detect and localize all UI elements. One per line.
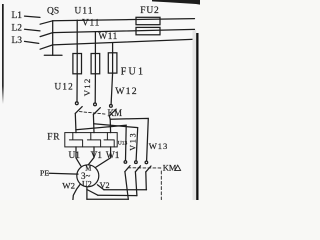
wire KM-delta pole3 down [145, 172, 148, 190]
wire tap V13 [94, 124, 138, 161]
contactor KM-delta dashed vertical [160, 171, 162, 200]
svg-text:V1: V1 [91, 151, 103, 161]
contactor KM blade pole3 [109, 109, 116, 116]
wire KM-delta pole1 down [125, 172, 128, 200]
wire phase line 2 after QS [53, 29, 195, 32]
FR heater element 1 [69, 133, 82, 147]
switch QS blade pole3 [40, 45, 53, 49]
wire FR1 to motor U1 [76, 147, 81, 167]
svg-text:U12: U12 [55, 82, 74, 92]
contactor KM contact circle pole1 [75, 102, 78, 105]
FR heater element 3 [104, 133, 114, 147]
fuse FU1 pole2 [91, 54, 100, 74]
wire bottom bus H1 [104, 189, 147, 191]
contactor KM-delta circle pole2 [135, 161, 138, 164]
switch QS linkage bar [52, 21, 54, 55]
svg-text:FU2: FU2 [140, 6, 159, 16]
svg-text:W11: W11 [98, 32, 118, 42]
svg-text:V11: V11 [82, 18, 100, 28]
svg-text:U11: U11 [75, 6, 94, 16]
svg-text:W1: W1 [106, 151, 120, 161]
scan artifact: top edge smear [152, 0, 200, 5]
svg-text:PE: PE [40, 168, 49, 177]
switch QS handle T-bar [44, 54, 62, 56]
wire phase line 3 after QS [53, 39, 195, 45]
wire through fuse1 down to KM contact [76, 54, 78, 102]
thermal relay FR box [65, 133, 117, 147]
svg-text:W2: W2 [62, 180, 75, 190]
wire through fuse2 down to KM contact [94, 54, 96, 103]
FR heater element 2 [87, 133, 100, 147]
svg-text:L2: L2 [12, 23, 23, 33]
svg-text:V13: V13 [128, 132, 137, 151]
scan artifact: right page shadow [193, 30, 197, 200]
svg-text:L1: L1 [12, 11, 23, 21]
fuse FU1 pole3 [108, 53, 117, 73]
wire V11 drop [94, 32, 96, 54]
svg-text:W12: W12 [115, 86, 138, 97]
svg-text:QS: QS [47, 6, 59, 16]
wire KM pole3 to FR [109, 116, 110, 133]
svg-text:U1: U1 [69, 151, 81, 161]
motor M circle [77, 165, 99, 187]
contactor KM-delta blade pole2 [135, 166, 140, 172]
node L2 lead-in wire [25, 29, 41, 31]
svg-text:FR: FR [47, 133, 60, 143]
wire U11 drop [76, 20, 78, 53]
svg-text:L3: L3 [12, 36, 23, 46]
svg-text:KM: KM [108, 108, 123, 118]
contactor KM contact circle pole2 [94, 103, 97, 106]
wire KM pole2 to FR [92, 115, 95, 133]
contactor KM-delta blade pole3 [146, 166, 151, 172]
paper background [0, 0, 200, 200]
wire bottom bus H3 [87, 198, 128, 200]
wire bottom bus H2 [98, 194, 137, 196]
contactor KM-delta circle pole3 [145, 161, 148, 164]
wire phase line 1 after QS [53, 19, 195, 21]
contactor KM dashed linkage [80, 112, 107, 115]
fuse FU1 pole1 [73, 54, 82, 74]
wire motor V2 lead [97, 185, 104, 190]
svg-text:V12: V12 [82, 78, 92, 97]
wire KM-delta pole2 down [135, 172, 137, 196]
node L1 lead-in wire [25, 16, 41, 17]
wire tap W13 [110, 118, 148, 160]
wire W11 drop [112, 43, 114, 53]
wire PE to motor frame [49, 172, 78, 175]
wire motor U2 diagonal branch [87, 190, 98, 196]
contactor KM-delta dashed linkage [128, 167, 161, 169]
svg-text:U2: U2 [82, 180, 92, 189]
wire KM pole1 to FR [74, 113, 77, 132]
svg-text:V2: V2 [100, 181, 110, 190]
scan artifact: right page edge bar [196, 33, 198, 200]
fuse FU2 upper cartridge [136, 17, 160, 24]
wire tap U13 [76, 125, 126, 160]
wire motor U2 vertical drop [86, 187, 88, 200]
contactor KM-delta circle pole1 [124, 161, 127, 164]
svg-text:KM: KM [163, 164, 177, 173]
switch QS blade pole1 [40, 21, 53, 24]
KM-delta label triangle [175, 165, 181, 170]
wire FR3 to motor W1 [96, 147, 111, 168]
wire motor W2 lead exiting bottom [73, 184, 80, 200]
contactor KM blade pole1 [75, 107, 82, 114]
fuse FU2 lower cartridge [136, 27, 160, 34]
svg-text:FU1: FU1 [121, 67, 145, 78]
node L3 lead-in wire [25, 41, 39, 43]
wire FR2 to motor V1 [88, 147, 94, 165]
switch QS blade pole2 [40, 33, 53, 37]
contactor KM blade pole2 [93, 108, 100, 115]
wire through fuse3 down to KM contact [111, 53, 113, 105]
contactor KM-delta blade pole1 [125, 166, 130, 172]
contactor KM contact circle pole3 [110, 105, 113, 108]
svg-text:U13: U13 [118, 141, 128, 147]
svg-text:W13: W13 [149, 141, 168, 151]
